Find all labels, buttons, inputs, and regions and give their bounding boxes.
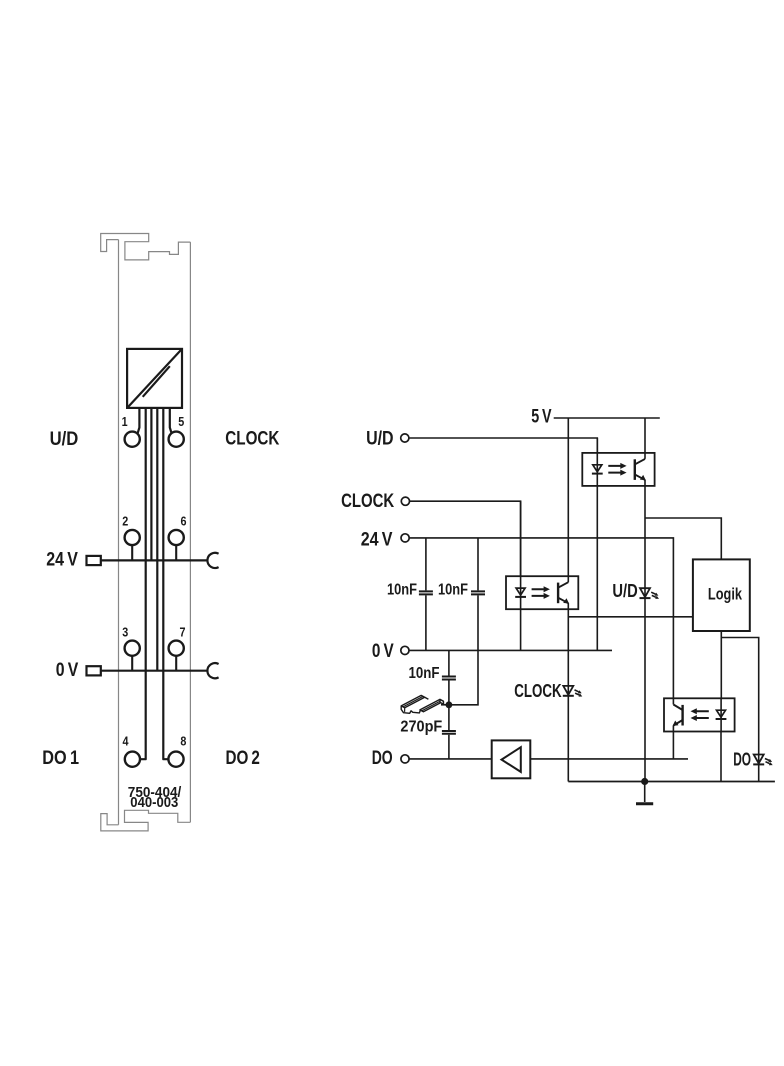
wire capacitor C4 branch	[448, 705, 450, 759]
svg-text:U/D: U/D	[612, 580, 637, 601]
terminal 4	[125, 752, 140, 767]
terminal 7	[169, 641, 184, 656]
wire DO line right	[530, 758, 688, 760]
ground stem	[644, 782, 646, 803]
wire CLOCK opto LED cathode to 0V	[520, 501, 522, 650]
optocoupler U1 U/D box	[582, 453, 654, 486]
svg-text:4: 4	[123, 734, 130, 749]
wire 0V line	[409, 649, 612, 651]
wire capacitor C3 branch	[448, 650, 450, 704]
wire U/D input	[409, 438, 597, 453]
wire DIN rail to node	[441, 704, 449, 706]
stem terminal 6	[175, 545, 177, 560]
capacitor C2 10nF plates	[471, 591, 485, 594]
wire CLOCK input	[410, 501, 521, 576]
module housing left edge	[118, 240, 120, 825]
wire w6 to terminal 5	[170, 408, 172, 433]
svg-text:040-003: 040-003	[130, 795, 178, 811]
optocoupler U3 DO feedback box	[664, 698, 735, 731]
svg-text:5 V: 5 V	[531, 405, 551, 427]
terminal 1	[125, 432, 140, 447]
wire DO opto LED cathode to ground	[720, 732, 722, 782]
stem terminal 2	[131, 545, 133, 560]
svg-text:U/D: U/D	[50, 428, 79, 450]
wire capacitor C2 branch	[449, 538, 478, 705]
svg-text:24 V: 24 V	[361, 528, 393, 550]
0V jumper contact arc	[207, 663, 218, 678]
stem terminal 3	[131, 656, 133, 671]
wire DO opto emitter to DO line	[672, 726, 674, 759]
wire w5 to terminal 8	[163, 408, 168, 759]
24V supply flag	[87, 556, 101, 565]
svg-text:U/D: U/D	[366, 427, 394, 449]
0V supply flag	[87, 666, 101, 675]
wire 24V to DO opto collector	[409, 538, 673, 705]
svg-text:6: 6	[181, 513, 187, 528]
wire capacitor C1 branch	[425, 538, 427, 651]
svg-text:5: 5	[178, 414, 184, 429]
svg-text:270pF: 270pF	[400, 718, 442, 735]
junction dot ground node	[641, 778, 648, 785]
output driver A1 triangle	[502, 747, 521, 772]
module housing top profile	[101, 234, 191, 260]
svg-text:DO: DO	[372, 747, 393, 769]
terminal 6	[169, 530, 184, 545]
DIN rail icon	[401, 695, 443, 713]
svg-text:10nF: 10nF	[438, 581, 468, 598]
LED U/D indicator	[640, 588, 660, 599]
wire CLOCK emitter to Logik left	[568, 616, 693, 618]
svg-text:CLOCK: CLOCK	[514, 680, 562, 701]
wire w2 to terminal 4	[140, 408, 146, 759]
svg-text:3: 3	[122, 624, 128, 639]
optocoupler U2 CLOCK box	[506, 576, 578, 609]
junction dot shield node	[446, 701, 453, 708]
wire U/D emitter branch to Logik top	[645, 518, 721, 559]
svg-text:Logik: Logik	[708, 586, 743, 604]
ground rail	[568, 781, 775, 783]
svg-text:DO 1: DO 1	[42, 747, 79, 769]
wire 5V to U/D opto transistor and U/D LED to ground	[644, 418, 646, 782]
wire Logik branch to DO LED	[721, 638, 758, 782]
5V supply line	[554, 417, 660, 419]
24V jumper contact arc	[207, 553, 218, 568]
ground bar	[636, 802, 653, 805]
optocoupler U1 internals	[592, 459, 646, 480]
wire w3 to 24V rail	[150, 408, 152, 560]
module housing right edge	[189, 242, 191, 822]
optocoupler U3 internals mirrored	[673, 705, 727, 726]
capacitor C1 10nF plates	[419, 591, 433, 594]
svg-text:10nF: 10nF	[409, 665, 440, 682]
24V field rail	[101, 559, 208, 561]
capacitor C3 10nF plates	[442, 677, 456, 680]
wire DO line left	[409, 758, 492, 760]
terminal 2	[125, 530, 140, 545]
svg-text:DO 2: DO 2	[226, 747, 261, 769]
svg-text:0 V: 0 V	[372, 640, 394, 662]
terminal 8	[168, 752, 183, 767]
LED CLOCK indicator	[563, 686, 583, 697]
U/D input terminal	[401, 434, 409, 442]
logic block Logik	[693, 559, 750, 631]
svg-text:10nF: 10nF	[387, 581, 417, 598]
svg-text:CLOCK: CLOCK	[341, 490, 394, 512]
terminal 3	[125, 641, 140, 656]
svg-text:1: 1	[122, 414, 128, 429]
wire w4 to 0V rail	[156, 408, 158, 670]
0V input terminal	[401, 646, 409, 654]
svg-text:8: 8	[180, 734, 186, 749]
wire w1 to terminal 1	[138, 408, 140, 433]
capacitor C4 270pF plates	[442, 731, 456, 734]
0V field rail	[101, 670, 208, 672]
optocoupler U2 internals	[515, 582, 569, 603]
svg-text:CLOCK: CLOCK	[225, 427, 279, 449]
module housing bottom profile	[101, 810, 191, 831]
DO output terminal	[401, 755, 409, 763]
box diagonal secondary	[143, 366, 170, 397]
wire U/D opto LED cathode to 0V	[596, 438, 598, 650]
box diagonal main	[128, 350, 182, 408]
output driver A1 box	[492, 740, 531, 778]
svg-text:7: 7	[180, 624, 186, 639]
terminal 5	[169, 432, 184, 447]
svg-text:DO: DO	[733, 748, 751, 769]
wire Logik bottom to DO opto LED	[720, 631, 722, 732]
CLOCK input terminal	[401, 497, 409, 505]
svg-text:0 V: 0 V	[56, 659, 79, 681]
svg-text:24 V: 24 V	[46, 549, 78, 571]
stem terminal 7	[175, 656, 177, 671]
svg-text:2: 2	[122, 513, 128, 528]
LED DO indicator	[753, 755, 773, 766]
24V input terminal	[401, 534, 409, 542]
wire 5V to CLOCK opto transistor and CLOCK LED to ground	[567, 418, 569, 782]
bus interface box K1	[127, 349, 182, 408]
